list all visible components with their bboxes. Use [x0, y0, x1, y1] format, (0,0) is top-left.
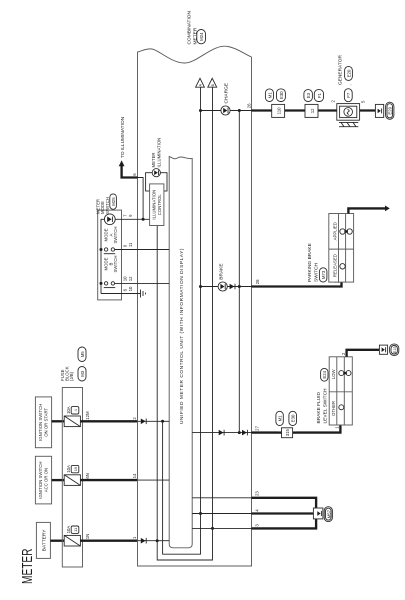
junction wire A brake — [199, 285, 202, 288]
svg-text:1: 1 — [132, 536, 137, 539]
unified meter control unit — [169, 157, 192, 548]
wire ACC to fuse block — [52, 479, 65, 481]
ignition switch ACC — [35, 456, 51, 504]
svg-text:7: 7 — [123, 214, 128, 217]
svg-text:28: 28 — [255, 279, 260, 284]
wire mode B pole2 down — [115, 282, 170, 284]
meter illumination loop — [146, 173, 167, 191]
svg-text:10A: 10A — [66, 526, 71, 534]
meter illumination label — [151, 138, 162, 168]
svg-text:IGNITION SWITCH: IGNITION SWITCH — [38, 461, 43, 498]
wire mode A to illumination control — [115, 218, 149, 220]
svg-text:10: 10 — [128, 286, 133, 291]
ground box M57 — [313, 508, 323, 519]
svg-text:4: 4 — [254, 509, 259, 512]
mode A switch text — [104, 227, 119, 244]
svg-text:1N: 1N — [85, 534, 90, 540]
fuse block label — [60, 366, 74, 381]
svg-text:10A: 10A — [66, 406, 71, 414]
svg-text:M5: M5 — [80, 351, 85, 358]
svg-text:E29: E29 — [388, 106, 393, 114]
svg-text:12: 12 — [310, 108, 315, 113]
svg-text:COMBINATION: COMBINATION — [187, 10, 193, 44]
meter illumination lamp — [152, 169, 160, 177]
diode 1 on pin 27 wire — [219, 430, 224, 436]
connector E24 — [321, 368, 328, 381]
brake fluid switch to ground E15 — [347, 350, 380, 357]
svg-text:BRAKE FLUID: BRAKE FLUID — [316, 392, 322, 424]
wire pin 6 to illumination arrow — [122, 166, 138, 178]
svg-text:10A: 10A — [66, 465, 71, 473]
connector M5 — [78, 347, 86, 366]
wire pin 23 to ground M57 — [252, 498, 317, 514]
svg-text:SWITCH: SWITCH — [313, 263, 319, 282]
svg-text:TO ILLUMINATION: TO ILLUMINATION — [120, 116, 126, 158]
svg-text:METER: METER — [151, 152, 156, 167]
wire battery to fuse block — [50, 540, 64, 542]
svg-text:26: 26 — [246, 103, 251, 108]
wire pin 27 to brake fluid switch — [252, 425, 341, 433]
mode pin labels row 2 — [128, 214, 133, 292]
svg-text:110: 110 — [276, 107, 281, 114]
svg-text:10: 10 — [123, 276, 128, 281]
svg-text:1: 1 — [335, 426, 340, 429]
svg-text:E24: E24 — [322, 370, 327, 378]
combination meter label — [187, 10, 199, 44]
generator — [337, 104, 360, 121]
connector F7 — [344, 84, 352, 101]
connector E29 — [386, 102, 394, 119]
svg-text:RELEASED: RELEASED — [333, 254, 338, 277]
svg-text:PARKING BRAKE: PARKING BRAKE — [307, 243, 313, 282]
mode switch common rail — [101, 219, 104, 293]
svg-text:2: 2 — [341, 352, 346, 355]
svg-text:23: 23 — [254, 491, 259, 496]
svg-text:M25: M25 — [111, 197, 116, 206]
connector E30 at 110 — [277, 89, 286, 102]
wire generator to ground E29 — [360, 109, 379, 111]
svg-text:ACC OR ON: ACC OR ON — [44, 468, 49, 492]
diode on brake wire — [230, 284, 235, 290]
junction wire B pin 3 — [211, 527, 214, 530]
ground box E29 — [375, 104, 383, 117]
svg-text:(J/B): (J/B) — [69, 371, 74, 381]
mode B pole 1 contacts — [100, 248, 116, 254]
svg-text:12: 12 — [128, 276, 133, 281]
svg-text:BRAKE: BRAKE — [218, 263, 224, 279]
brake fluid switch labels — [331, 368, 336, 415]
svg-text:2: 2 — [330, 100, 335, 103]
svg-text:F7: F7 — [346, 92, 351, 98]
ground box E15 — [379, 345, 387, 354]
svg-text:27: 27 — [254, 425, 259, 430]
generator case ground — [339, 122, 358, 126]
fuse F4 10A — [64, 406, 80, 426]
svg-text:IGNITION SWITCH: IGNITION SWITCH — [38, 404, 43, 441]
connector E30 at 315 — [289, 411, 297, 425]
wire pin 3 to ground M57 — [252, 514, 317, 529]
svg-text:ILLUMINATION: ILLUMINATION — [157, 138, 162, 168]
connector E15 — [390, 344, 399, 355]
charge wire — [201, 110, 252, 112]
svg-text:CHARGE: CHARGE — [223, 83, 229, 104]
svg-text:M3: M3 — [80, 370, 85, 377]
svg-text:SWITCH: SWITCH — [113, 227, 118, 244]
wire mode B pole1 down — [115, 249, 170, 251]
fuse F11 10A — [64, 526, 80, 546]
wire 12M to meter pin 2 — [80, 420, 137, 422]
battery B1 — [36, 522, 50, 558]
svg-text:6: 6 — [132, 173, 137, 176]
svg-text:5: 5 — [360, 100, 365, 103]
connector M1 at 110 — [265, 89, 273, 102]
svg-text:GENERATOR: GENERATOR — [338, 55, 344, 85]
connector box 12 — [305, 104, 318, 117]
svg-text:E30: E30 — [291, 414, 296, 422]
parking brake labels — [333, 222, 338, 277]
connector box 110 — [272, 104, 285, 117]
wire pin 14 inside — [138, 479, 170, 481]
svg-text:E15: E15 — [393, 346, 397, 353]
brake branch wire — [201, 286, 252, 288]
svg-text:11: 11 — [128, 242, 133, 247]
svg-text:E30: E30 — [279, 91, 284, 99]
mode pin labels row 1 — [123, 214, 128, 292]
svg-text:9: 9 — [123, 244, 128, 247]
wire C brake to charge link — [238, 111, 240, 433]
svg-text:11: 11 — [73, 528, 78, 532]
meter mode switch box M25 — [98, 210, 122, 300]
svg-text:3: 3 — [254, 524, 259, 527]
junction wire C brake — [238, 285, 241, 288]
brake lamp — [218, 282, 227, 291]
mode A switch symbol — [104, 214, 115, 225]
parking brake switch to ground arrow — [348, 208, 385, 213]
ground symbol mode switch — [141, 290, 146, 298]
junction M57 — [315, 512, 318, 515]
connector M3 — [78, 367, 86, 382]
svg-text:UNIFIED METER CONTROL UNIT (WI: UNIFIED METER CONTROL UNIT (WITH INFORMA… — [179, 248, 185, 424]
connector M73 — [319, 268, 327, 282]
junction wire A charge — [199, 109, 202, 112]
svg-text:LEVEL SWITCH: LEVEL SWITCH — [323, 388, 329, 424]
svg-text:E3: E3 — [306, 92, 311, 98]
svg-text:F1: F1 — [317, 92, 322, 98]
svg-text:CONTROL: CONTROL — [157, 194, 162, 216]
brake fluid level switch E24 — [329, 357, 352, 425]
brake fluid contacts — [339, 371, 351, 410]
svg-text:M57: M57 — [326, 509, 331, 518]
ignition switch ON/START — [35, 397, 51, 448]
svg-text:M24: M24 — [199, 32, 204, 41]
connector box 315 — [278, 428, 296, 438]
wire pin 28 to parking brake switch — [252, 282, 342, 286]
svg-text:E20: E20 — [346, 69, 351, 77]
svg-text:,: , — [80, 364, 85, 365]
wire pin 3 — [192, 527, 251, 529]
svg-text:M73: M73 — [321, 270, 326, 279]
mode B pole 2 contacts — [100, 282, 116, 288]
svg-text:ON OR START: ON OR START — [44, 407, 49, 436]
diode 2 on pin 27 wire — [242, 430, 247, 436]
diode on pin 1 wire — [141, 538, 146, 544]
junction charge brake link — [238, 109, 241, 112]
illumination control box — [150, 184, 164, 226]
svg-text:OTHER: OTHER — [331, 401, 336, 416]
svg-text:METER: METER — [19, 548, 36, 584]
svg-text:SWITCH: SWITCH — [113, 256, 118, 273]
wire 1N to meter pin 1 — [80, 540, 137, 542]
parking brake switch M73 — [329, 214, 354, 283]
wire A pin-2 branch wrap to triangle A — [163, 87, 201, 554]
charge lamp — [221, 106, 230, 115]
svg-text:LOW: LOW — [331, 368, 336, 379]
fuse block J/B — [62, 388, 82, 568]
svg-text:6: 6 — [123, 288, 128, 291]
svg-text:12M: 12M — [85, 411, 90, 420]
junction pin 1 — [156, 539, 159, 542]
wire pin 4 — [192, 513, 251, 515]
wire B illumination wrap to triangle B — [157, 87, 212, 560]
wire pin 6 inside — [138, 178, 144, 219]
triangle ref B — [208, 78, 217, 87]
wire pin 4 to ground M57 — [252, 512, 317, 514]
connector M57 — [324, 507, 332, 522]
mode B switch text — [104, 256, 119, 273]
arrow to illumination — [119, 160, 125, 166]
fuse F19 10A — [64, 465, 80, 485]
connector M24 — [197, 30, 206, 44]
svg-text:M1: M1 — [267, 92, 272, 99]
brake fluid switch label — [316, 388, 328, 424]
wire pin 23 — [192, 497, 251, 499]
svg-text:2: 2 — [132, 417, 137, 420]
connector M1 at 315 — [276, 411, 283, 425]
parking brake switch label — [307, 243, 320, 282]
svg-text:,: , — [347, 84, 352, 85]
triangle ref A — [196, 78, 205, 87]
wire pin 2 inside — [138, 420, 170, 422]
svg-text:315: 315 — [285, 429, 290, 437]
svg-text:APPLIED: APPLIED — [333, 222, 338, 240]
junction wire C pin 27 — [238, 431, 241, 434]
ground arrow parking brake — [385, 206, 390, 212]
wire pin 1 inside — [138, 540, 170, 542]
wire ON to fuse block — [52, 420, 65, 422]
meter mode switch label — [96, 197, 110, 214]
wire pin 27 — [192, 432, 251, 434]
svg-text:19: 19 — [73, 467, 78, 471]
wire 6N to meter pin 14 — [80, 479, 137, 481]
junction pin 2 — [161, 420, 164, 423]
svg-text:9: 9 — [128, 214, 133, 217]
combination meter outline M24 — [138, 46, 252, 566]
svg-text:M1: M1 — [278, 415, 283, 422]
parking brake contacts — [340, 229, 353, 269]
junction wire A pin 4 — [199, 512, 202, 515]
connector M25 — [110, 194, 117, 209]
svg-text:14: 14 — [132, 473, 137, 478]
connector F1 at 12 — [314, 90, 323, 102]
connector E3 at 12 — [304, 90, 313, 102]
svg-text:SWITCH: SWITCH — [105, 197, 110, 214]
diode on pin 2 wire — [141, 419, 146, 425]
junction mode A illumination — [142, 218, 145, 221]
svg-text:6N: 6N — [85, 473, 90, 479]
wire charge to generator — [252, 109, 337, 111]
connector E20 — [345, 66, 353, 80]
wire mode switch ground — [101, 293, 141, 295]
svg-text:BATTERY: BATTERY — [41, 529, 47, 551]
